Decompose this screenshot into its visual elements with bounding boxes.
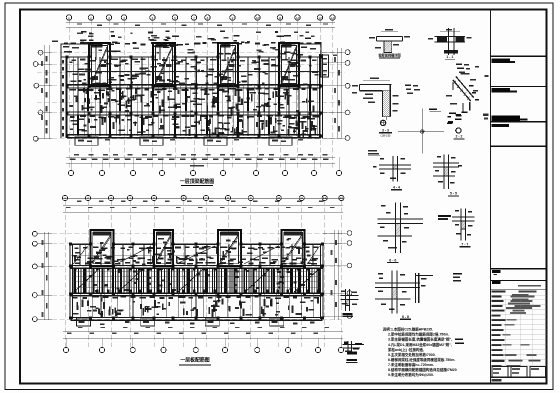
svg-text:11: 11 — [300, 196, 303, 200]
bottom plan: upper band mid line — [71, 255, 322, 257]
title block: left vertical line — [490, 10, 492, 384]
detail D circle mark — [456, 128, 461, 133]
top plan: scattered text lower band — [305, 128, 308, 130]
bottom-left mini detail caption — [346, 359, 357, 361]
svg-text:1 - 1: 1 - 1 — [446, 55, 453, 59]
left small detail caption — [343, 313, 353, 315]
svg-text:12: 12 — [296, 16, 300, 20]
margin text marks left of title block — [485, 75, 489, 77]
bottom plan: main horizontal beams (double lines) — [70, 264, 322, 266]
top plan: left vertical dimension lines — [43, 45, 45, 139]
svg-text:2.梁中拉筋间距均为箍筋间距2倍,750m.: 2.梁中拉筋间距均为箍筋间距2倍,750m. — [388, 332, 449, 337]
crosshair register mark — [398, 130, 444, 132]
top plan: stair shaft boxes with stairs — [89, 43, 110, 86]
detail E: column section 4-4 — [379, 164, 411, 166]
top plan: right vertical dimension lines — [336, 48, 338, 138]
bottom plan: upper band label rows — [74, 247, 78, 249]
top plan: thin partition lines — [72, 113, 74, 136]
bottom plan: middle band thin rebar lines — [72, 268, 74, 293]
detail I: wall junction 8-8 — [391, 271, 393, 314]
top plan: left end protrusion — [61, 44, 91, 57]
top plan: right axis bubbles — [345, 50, 350, 55]
top plan: top axis bubbles — [66, 15, 71, 20]
detail D dense text cluster — [448, 116, 451, 118]
svg-text:9.未注明分布筋均为Φ6@200.: 9.未注明分布筋均为Φ6@200. — [388, 372, 434, 377]
svg-text:5 - 5: 5 - 5 — [450, 192, 457, 196]
title block: header label bars of form — [512, 294, 529, 296]
detail D: sloped roof member — [456, 77, 474, 98]
top plan: right end protrusion — [299, 44, 321, 57]
bottom plan: column nodes — [69, 243, 72, 246]
bottom plan: body outline (double) — [69, 244, 71, 319]
bottom plan: top axis line through bubbles — [63, 197, 344, 199]
top plan: body outline walls (double) — [60, 57, 62, 138]
top plan: upper band thin partitions — [72, 57, 74, 86]
title block: section divider lines — [491, 55, 547, 57]
svg-text:(1B-1B): (1B-1B) — [381, 134, 391, 138]
top plan: corridor line in upper band — [67, 71, 321, 73]
small mark cluster between details C and D — [405, 85, 411, 87]
svg-text:14: 14 — [331, 16, 335, 20]
bottom plan: upper band walls — [100, 244, 102, 266]
top plan: text labels above body — [85, 42, 90, 44]
svg-text:5.主次梁相交处附加吊筋/7000.: 5.主次梁相交处附加吊筋/7000. — [388, 352, 436, 357]
svg-text:13: 13 — [340, 196, 344, 200]
top plan: column nodes at beam intersections — [66, 56, 69, 59]
svg-text:3.梁主筋锚固长度,抗震锚固长度满足"规",: 3.梁主筋锚固长度,抗震锚固长度满足"规", — [388, 337, 452, 342]
top plan: left wall text marks — [62, 60, 64, 64]
svg-text:坡屋面挑檐详图: 坡屋面挑檐详图 — [378, 53, 400, 58]
top plan: interior vertical walls mid bands (thick) — [77, 86, 79, 136]
title block: form vertical column lines — [505, 299, 507, 365]
bottom plan: left vertical dimension lines — [44, 232, 46, 320]
bottom plan: right vertical dimension lines — [333, 230, 335, 320]
detail C: wall corner section — [360, 84, 392, 86]
svg-text:一层顶梁配筋图: 一层顶梁配筋图 — [180, 178, 214, 185]
bottom plan: upper band label row above hatch — [75, 263, 80, 265]
left small wall detail — [345, 289, 347, 311]
svg-text:10: 10 — [256, 16, 260, 20]
top plan: top dimension lines and numbers — [66, 21, 335, 23]
notes scale mark — [455, 339, 463, 341]
bottom plan: right axis bubbles — [347, 231, 352, 236]
top plan: upper band room walls — [77, 57, 79, 86]
detail A: roof slab tee section — [376, 36, 402, 38]
top plan: bottom axis bubbles — [68, 170, 73, 175]
svg-text:4 - 4: 4 - 4 — [393, 186, 400, 190]
svg-text:8 - 8: 8 - 8 — [402, 315, 409, 319]
svg-text:梁柱axb(上) :拉接构造,: 梁柱axb(上) :拉接构造, — [387, 347, 424, 352]
svg-text:说明:1.本图砼C25,钢筋HPB235.: 说明:1.本图砼C25,钢筋HPB235. — [383, 327, 433, 332]
bottom plan: middle band diagonals — [74, 268, 100, 292]
detail G: wall tee detail 6-6 — [394, 203, 396, 253]
title block: bottom strip — [491, 377, 547, 379]
svg-text:10: 10 — [277, 196, 281, 200]
text 洞口加筋 note — [438, 215, 451, 217]
svg-text:一层板配筋图: 一层板配筋图 — [180, 357, 209, 364]
svg-text:13: 13 — [318, 16, 322, 20]
top plan: top edge beams between stair shafts — [110, 56, 153, 58]
detail C circle mark — [381, 120, 386, 125]
bottom plan: vertical grid lines — [64, 200, 66, 347]
top plan: main horizontal beams (double lines) — [67, 84, 321, 86]
top plan: scattered text upper band — [296, 61, 300, 63]
bottom plan: middle band thick wall verticals — [74, 268, 76, 294]
svg-text:6.楼梯间梁柱,砼强度等级同楼层梁板.750m.: 6.楼梯间梁柱,砼强度等级同楼层梁板.750m. — [388, 357, 455, 362]
bottom plan: middle band end blobs — [74, 268, 77, 271]
top plan: left axis bubbles and horizontal grid lines — [37, 52, 345, 54]
bottom plan: lower band partitions — [79, 294, 81, 318]
top plan: porch boxes below body — [75, 137, 98, 146]
bottom plan: lower band label row — [72, 297, 78, 299]
svg-text:12: 12 — [323, 196, 327, 200]
text labels right of detail B — [456, 64, 462, 66]
title block: bottom stamp boxes — [492, 367, 508, 378]
bottom plan: porch boxes below — [77, 318, 91, 326]
bottom plan: middle band horizontal lines — [72, 270, 321, 272]
title block: bold project name bars — [492, 58, 511, 63]
note text 板厚 right side — [453, 273, 462, 275]
top plan: dimension text row along top edge — [64, 43, 68, 45]
bottom plan: lower band text — [133, 301, 135, 303]
svg-text:2 - 2: 2 - 2 — [455, 135, 462, 139]
svg-text:6 - 6: 6 - 6 — [389, 258, 396, 262]
bottom plan: upper band stair diagonals — [73, 246, 87, 264]
top plan: beam label text rows — [69, 89, 76, 91]
svg-text:7.未注明板面标高h=-720mm.: 7.未注明板面标高h=-720mm. — [388, 362, 434, 367]
bottom plan: upper band text — [73, 255, 77, 257]
bottom plan: lower band vertical text labels — [208, 307, 210, 314]
svg-text:4.凡L梁D1,采用M32坐浆60x锚固M2"规",: 4.凡L梁D1,采用M32坐浆60x锚固M2"规", — [388, 342, 452, 347]
bottom-left mini detail — [347, 341, 349, 353]
bottom plan: middle band dark marks — [236, 276, 239, 278]
bottom plan: marks between porches — [100, 323, 105, 325]
detail H: section 7-7 — [460, 209, 462, 241]
bottom plan: left axis bubbles and horizontal grid lines — [37, 233, 345, 235]
detail B: beam-column joint 1-1 — [448, 28, 450, 55]
svg-text:8.结构平面横向配筋锚固构造详见结施/7M20: 8.结构平面横向配筋锚固构造详见结施/7M20 — [388, 367, 457, 372]
top plan: dark wall strips — [87, 88, 89, 111]
bottom plan: bottom axis bubbles — [63, 347, 68, 352]
top plan: marks between porches — [105, 139, 110, 141]
svg-text:11: 11 — [278, 16, 281, 20]
top plan: bottom dimension lines — [66, 156, 335, 158]
top plan: vertical text labels along walls — [150, 91, 152, 98]
svg-text:3 - 3: 3 - 3 — [382, 129, 389, 133]
label above crosshair right — [429, 109, 437, 111]
svg-text:7 - 7: 7 - 7 — [461, 242, 468, 246]
top plan: scattered text middle band — [296, 110, 299, 112]
bottom plan: top dimension lines — [63, 204, 343, 206]
top plan: right bay — [321, 55, 329, 77]
top plan: unit boundary walls — [130, 57, 132, 136]
bottom plan: bottom dimension lines — [63, 330, 343, 332]
bottom plan: top axis bubbles — [62, 195, 67, 200]
detail F: column section 5-5 — [443, 155, 445, 190]
title block: lower form area — [491, 290, 547, 377]
top plan: vertical grid lines — [68, 20, 70, 168]
bottom plan: stair shaft boxes protruding at top — [91, 230, 114, 266]
bottom plan: upper band vertical text labels — [298, 248, 300, 255]
